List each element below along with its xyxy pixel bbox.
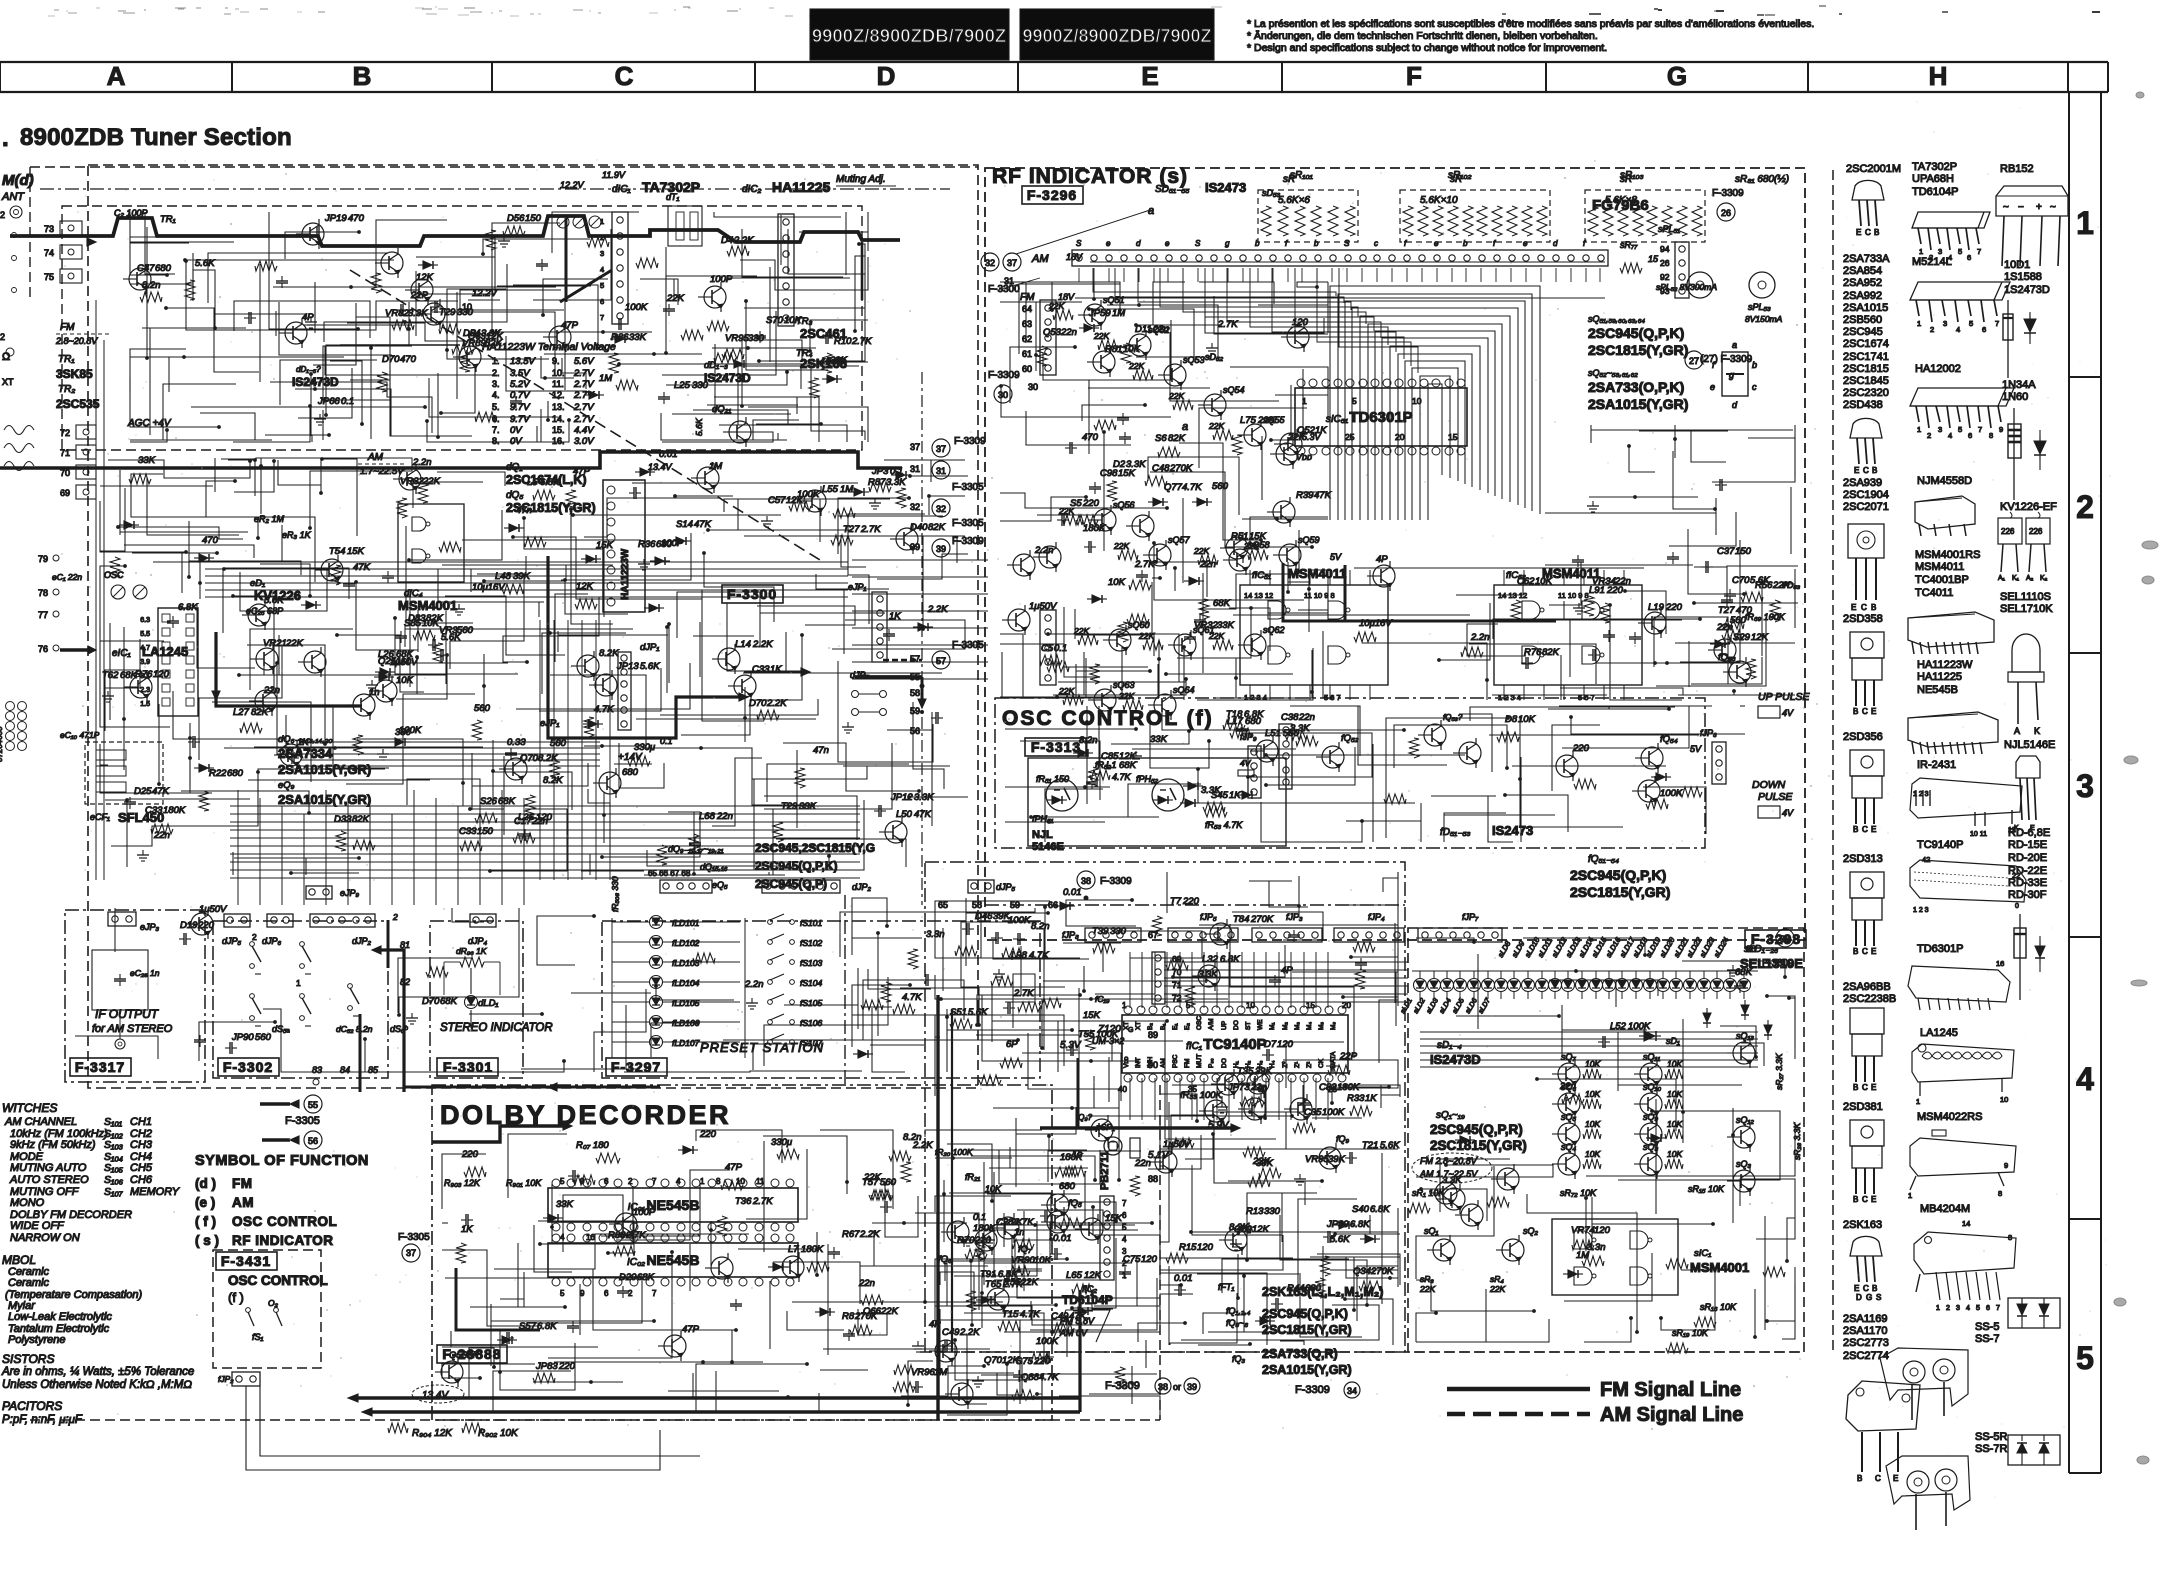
svg-text:560: 560 [474, 703, 491, 714]
svg-text:fQ₅₂: fQ₅₂ [1341, 733, 1359, 744]
svg-text:5.6K: 5.6K [640, 661, 660, 672]
svg-text:92: 92 [1660, 272, 1670, 282]
svg-text:PACITORS: PACITORS [2, 1399, 62, 1413]
svg-text:C: C [1862, 1083, 1868, 1092]
svg-text:eJP₃: eJP₃ [140, 922, 160, 932]
svg-text:7: 7 [1995, 319, 1999, 328]
svg-text:Muting Adj.: Muting Adj. [836, 174, 886, 185]
svg-text:6: 6 [1122, 1211, 1127, 1220]
svg-text:sQ₁₂: sQ₁₂ [1736, 1115, 1754, 1125]
svg-text:e: e [1710, 382, 1715, 392]
svg-text:D56: D56 [507, 213, 525, 224]
svg-text:5.5: 5.5 [140, 631, 150, 638]
svg-text:3SK85: 3SK85 [56, 367, 93, 381]
svg-text:5.6K: 5.6K [441, 632, 461, 643]
svg-text:100K: 100K [1096, 1029, 1119, 1040]
svg-text:sQ₄: sQ₄ [1561, 1142, 1577, 1152]
svg-text:RD-15E: RD-15E [2008, 839, 2047, 851]
svg-text:fIC₁: fIC₁ [1186, 1041, 1202, 1052]
svg-text:fQ₅₄: fQ₅₄ [1660, 734, 1678, 745]
svg-text:12K: 12K [786, 495, 804, 506]
svg-text:E: E [1871, 1083, 1876, 1092]
svg-text:2.7K: 2.7K [1217, 319, 1238, 330]
svg-text:K₂: K₂ [2040, 575, 2048, 582]
svg-text:2.7V: 2.7V [573, 402, 595, 413]
svg-text:eQ₉: eQ₉ [278, 780, 295, 791]
svg-text:12.2V: 12.2V [560, 180, 585, 190]
svg-text:E: E [1851, 603, 1856, 612]
svg-text:fJP₃: fJP₃ [1286, 912, 1303, 922]
svg-text:3.3n: 3.3n [926, 929, 945, 940]
svg-text:2: 2 [600, 233, 604, 242]
svg-text:fQ₅₁₋₅₄: fQ₅₁₋₅₄ [1588, 854, 1619, 865]
svg-text:22n: 22n [1060, 327, 1077, 338]
svg-text:dIC₁: dIC₁ [612, 184, 631, 195]
svg-text:eJP₁: eJP₁ [848, 582, 867, 592]
svg-text:sQ₁₀: sQ₁₀ [1643, 1082, 1661, 1092]
svg-text:fS102: fS102 [800, 938, 822, 948]
svg-text:F-3305: F-3305 [285, 1115, 320, 1127]
svg-text:4: 4 [600, 265, 604, 274]
svg-text:2.7K: 2.7K [1002, 1279, 1023, 1290]
svg-text:FM: FM [1020, 292, 1035, 303]
svg-text:NE545B: NE545B [1917, 684, 1958, 696]
svg-text:S26: S26 [480, 796, 498, 807]
svg-text:C28: C28 [996, 1217, 1014, 1228]
svg-text:33K: 33K [462, 1350, 480, 1361]
svg-text:B: B [353, 61, 372, 91]
svg-text:10K: 10K [422, 618, 440, 629]
svg-text:T29: T29 [781, 801, 798, 812]
svg-text:Q66: Q66 [863, 1306, 882, 1317]
svg-text:5V: 5V [1690, 744, 1702, 754]
svg-text:F-3305: F-3305 [952, 482, 984, 493]
svg-text:VR74: VR74 [1571, 1225, 1595, 1236]
svg-text:68K: 68K [498, 796, 516, 807]
svg-text:8: 8 [1989, 431, 1993, 440]
svg-text:47P: 47P [725, 1162, 743, 1173]
svg-text:dQ₅: dQ₅ [506, 490, 523, 501]
svg-text:2.2K: 2.2K [912, 1140, 933, 1151]
svg-text:RD-33E: RD-33E [2008, 877, 2047, 889]
svg-text:fLD104: fLD104 [672, 978, 700, 988]
svg-text:SEL1110S: SEL1110S [2000, 591, 2051, 603]
svg-text:B: B [1853, 825, 1858, 834]
svg-text:AM: AM [232, 1195, 254, 1210]
svg-text:1n: 1n [369, 687, 380, 698]
svg-text:FM: FM [60, 322, 75, 333]
svg-text:fS₁: fS₁ [252, 1332, 264, 1342]
svg-text:O₂: O₂ [268, 1298, 279, 1308]
svg-text:1n: 1n [1014, 1227, 1025, 1238]
svg-text:S85: S85 [404, 618, 422, 629]
svg-text:VR21: VR21 [263, 638, 287, 649]
svg-text:2SC945(Q,P,R): 2SC945(Q,P,R) [1430, 1122, 1523, 1137]
svg-text:F-3309: F-3309 [954, 436, 986, 447]
svg-text:E: E [1893, 1474, 1898, 1483]
svg-text:sPL₅₁: sPL₅₁ [1658, 224, 1680, 234]
svg-text:1K: 1K [770, 664, 782, 675]
svg-text:M₂: M₂ [1282, 1022, 1289, 1030]
svg-text:ST: ST [1245, 1022, 1252, 1030]
svg-text:S₁₀₅: S₁₀₅ [104, 1162, 124, 1174]
svg-text:a: a [1732, 340, 1737, 350]
svg-text:2SA1169: 2SA1169 [1843, 1313, 1887, 1325]
svg-text:38: 38 [1780, 934, 1790, 944]
svg-text:10μ16V: 10μ16V [472, 582, 506, 593]
svg-text:330: 330 [748, 333, 765, 344]
svg-text:fR₅₁ 150: fR₅₁ 150 [1036, 774, 1069, 784]
svg-text:D7: D7 [1264, 1039, 1277, 1050]
svg-text:MEMORY: MEMORY [130, 1186, 180, 1198]
svg-text:6.8K: 6.8K [178, 602, 198, 613]
svg-text:2SC2774: 2SC2774 [1843, 1350, 1889, 1362]
svg-text:33K: 33K [1217, 620, 1235, 631]
svg-text:6: 6 [1982, 325, 1986, 334]
svg-text:sR₄: sR₄ [1490, 1274, 1504, 1284]
svg-text:15K: 15K [1083, 1010, 1101, 1021]
svg-text:2SC535: 2SC535 [56, 397, 100, 411]
svg-text:3: 3 [2076, 768, 2094, 804]
svg-text:T36: T36 [735, 1196, 752, 1207]
svg-text:5: 5 [560, 1177, 565, 1186]
svg-text:b: b [1463, 239, 1468, 248]
svg-text:7: 7 [652, 1289, 657, 1298]
svg-text:S: S [1195, 239, 1201, 248]
svg-text:eC₁ 22n: eC₁ 22n [52, 572, 82, 582]
svg-text:2: 2 [628, 1177, 633, 1186]
svg-text:HA12002: HA12002 [1915, 363, 1961, 375]
svg-text:UP: UP [1221, 1021, 1228, 1030]
svg-text:KV1226-EF: KV1226-EF [2000, 501, 2057, 513]
svg-text:M₆: M₆ [1330, 1022, 1337, 1030]
svg-text:dQ₁₅,₁₆: dQ₁₅,₁₆ [700, 862, 728, 872]
svg-text:5.: 5. [492, 402, 500, 412]
svg-text:Q34: Q34 [1353, 1266, 1371, 1277]
svg-text:sD₁₋₄: sD₁₋₄ [1437, 1040, 1462, 1051]
svg-text:OSC CONTROL: OSC CONTROL [232, 1214, 337, 1229]
svg-text:1K: 1K [297, 737, 309, 748]
svg-text:STEREO INDICATOR: STEREO INDICATOR [440, 1022, 553, 1034]
svg-text:fS103: fS103 [800, 958, 822, 968]
svg-text:F-3309: F-3309 [1100, 876, 1132, 887]
svg-text:22n: 22n [1152, 324, 1169, 335]
svg-text:P:pF, n:nF, μ:μF: P:pF, n:nF, μ:μF [2, 1414, 83, 1426]
svg-text:R₀₇ 180: R₀₇ 180 [576, 1140, 609, 1151]
svg-text:fR₅₃ 4.7K: fR₅₃ 4.7K [1205, 820, 1243, 830]
svg-text:3: 3 [600, 249, 604, 258]
svg-text:2SC945: 2SC945 [1843, 326, 1883, 338]
svg-text:fQ₉: fQ₉ [1336, 1134, 1350, 1144]
svg-text:* La présention et les spécifi: * La présention et les spécifications so… [1247, 18, 1814, 30]
svg-text:8.2K: 8.2K [599, 648, 619, 659]
svg-text:1: 1 [1917, 319, 1921, 328]
svg-text:e: e [1523, 239, 1528, 248]
svg-text:L32: L32 [1202, 954, 1219, 965]
svg-text:sQ₁: sQ₁ [1424, 1226, 1439, 1236]
svg-text:TC4001BP: TC4001BP [1915, 574, 1969, 586]
svg-text:fQ₁,₂,₄: fQ₁,₂,₄ [1226, 1306, 1251, 1316]
svg-text:T15: T15 [1002, 1309, 1019, 1320]
svg-text:R81: R81 [1105, 344, 1122, 355]
svg-text:0.1: 0.1 [890, 466, 903, 477]
svg-text:3.: 3. [492, 379, 500, 389]
svg-text:16: 16 [1996, 959, 2004, 968]
svg-text:12K: 12K [576, 581, 594, 592]
svg-text:330: 330 [692, 380, 709, 391]
svg-text:RD-30F: RD-30F [2008, 889, 2047, 901]
svg-text:LA1245: LA1245 [1920, 1027, 1958, 1039]
svg-text:JP59: JP59 [1088, 308, 1111, 319]
svg-text:R67: R67 [842, 1229, 860, 1240]
svg-text:C: C [1863, 1284, 1869, 1293]
svg-text:39: 39 [936, 544, 946, 554]
svg-text:120: 120 [1141, 1254, 1158, 1265]
svg-text:fJP₈: fJP₈ [1062, 930, 1079, 940]
svg-text:D: D [877, 61, 896, 91]
svg-text:15: 15 [1648, 254, 1659, 264]
svg-text:JP90: JP90 [231, 1032, 254, 1043]
svg-text:470: 470 [1736, 605, 1753, 616]
svg-text:sQ₅: sQ₅ [1561, 1112, 1577, 1122]
svg-text:L51: L51 [1265, 728, 1281, 739]
svg-text:VR96: VR96 [911, 1367, 935, 1378]
svg-text:c: c [1752, 382, 1757, 392]
svg-text:PB2711: PB2711 [1099, 1151, 1111, 1190]
svg-text:XT: XT [1123, 1022, 1130, 1030]
svg-text:dR₉₆ 1K: dR₉₆ 1K [456, 946, 487, 956]
svg-text:(d ): (d ) [195, 1176, 216, 1191]
svg-text:9900Z/8900ZDB/7900Z: 9900Z/8900ZDB/7900Z [1022, 26, 1211, 46]
svg-text:A: A [107, 61, 126, 91]
svg-text:5.1V: 5.1V [1148, 1150, 1170, 1161]
svg-text:5.6K: 5.6K [195, 258, 215, 269]
svg-text:10K: 10K [1535, 576, 1553, 587]
svg-text:9: 9 [580, 1289, 585, 1298]
svg-text:2SC1904: 2SC1904 [1843, 489, 1889, 501]
svg-text:11.: 11. [552, 379, 564, 389]
svg-text:2SA1170: 2SA1170 [1843, 1325, 1887, 1337]
svg-text:L19: L19 [1648, 602, 1665, 613]
svg-text:sR₁₆ 10K: sR₁₆ 10K [1700, 1302, 1737, 1312]
svg-text:31: 31 [910, 464, 920, 474]
svg-text:Q70: Q70 [520, 753, 539, 764]
svg-text:1M: 1M [599, 373, 612, 384]
svg-text:30: 30 [998, 390, 1008, 400]
svg-text:9: 9 [1999, 425, 2003, 434]
svg-text:Z¹: Z¹ [1294, 1061, 1301, 1068]
svg-text:sR₂₈ 3.3K: sR₂₈ 3.3K [1792, 1123, 1802, 1160]
svg-text:B: B [1853, 1083, 1858, 1092]
svg-text:2SA1015(Y,GR): 2SA1015(Y,GR) [1262, 1363, 1352, 1377]
svg-text:4: 4 [1122, 1235, 1127, 1244]
svg-text:39K: 39K [1255, 1066, 1273, 1077]
svg-text:b: b [1255, 239, 1260, 248]
svg-text:6: 6 [1967, 253, 1971, 262]
svg-text:fR₃₃ 100K: fR₃₃ 100K [1180, 1090, 1223, 1101]
svg-text:5: 5 [1122, 1223, 1127, 1232]
svg-text:E: E [1856, 228, 1861, 237]
svg-text:T84: T84 [1233, 914, 1249, 925]
svg-text:5: 5 [1958, 425, 1962, 434]
svg-text:TD6104P: TD6104P [1912, 186, 1958, 198]
svg-text:L26: L26 [518, 812, 535, 823]
svg-text:14: 14 [1962, 1219, 1970, 1228]
svg-text:R10: R10 [834, 336, 852, 347]
svg-text:5: 5 [600, 281, 604, 290]
svg-text:S: S [1076, 239, 1082, 248]
svg-text:E: E [1871, 1195, 1876, 1204]
svg-text:fS104: fS104 [800, 978, 822, 988]
svg-text:88: 88 [1148, 1174, 1158, 1184]
svg-text:2SD356: 2SD356 [1843, 731, 1883, 743]
svg-text:VR95: VR95 [1305, 1154, 1329, 1165]
svg-text:R₉₀₂ 10K: R₉₀₂ 10K [478, 1428, 519, 1439]
svg-text:C57: C57 [768, 495, 786, 506]
svg-text:47P: 47P [682, 1324, 700, 1335]
svg-text:e: e [1165, 239, 1170, 248]
svg-text:220: 220 [461, 1149, 479, 1160]
svg-text:Unless Otherwise Noted K:kΩ ,M: Unless Otherwise Noted K:kΩ ,M:MΩ [2, 1379, 192, 1391]
svg-text:D8: D8 [1505, 714, 1518, 725]
svg-text:5.2V: 5.2V [510, 379, 531, 390]
svg-text:2.2n: 2.2n [1034, 545, 1054, 556]
svg-text:57: 57 [936, 656, 946, 666]
svg-text:A₂: A₂ [2026, 575, 2034, 582]
svg-text:2: 2 [1930, 325, 1934, 334]
svg-text:22n: 22n [716, 811, 733, 822]
svg-text:OSC: OSC [1196, 1016, 1203, 1030]
svg-text:2.2K: 2.2K [733, 235, 754, 246]
svg-text:90: 90 [1148, 1060, 1158, 1070]
svg-text:22K: 22K [1489, 1284, 1505, 1294]
svg-text:F-3317: F-3317 [75, 1059, 125, 1075]
svg-text:2SC2001M: 2SC2001M [1846, 163, 1901, 175]
svg-text:C47: C47 [137, 263, 155, 274]
svg-text:5.6K: 5.6K [1380, 1140, 1400, 1151]
svg-text:D19: D19 [180, 920, 198, 931]
svg-text:6.8K: 6.8K [1220, 954, 1240, 965]
svg-text:K₁: K₁ [2012, 575, 2020, 582]
svg-text:2.7K: 2.7K [851, 336, 872, 347]
svg-text:JP19: JP19 [324, 213, 347, 224]
svg-text:M₃: M₃ [1294, 1022, 1301, 1030]
svg-text:7: 7 [1122, 1199, 1127, 1208]
svg-text:dC₅₂ 8.2n: dC₅₂ 8.2n [336, 1024, 373, 1034]
svg-text:eJP₁: eJP₁ [540, 718, 559, 729]
svg-text:9.7V: 9.7V [510, 414, 531, 425]
svg-text:2SC1815: 2SC1815 [1843, 363, 1889, 375]
svg-text:2SC1741: 2SC1741 [1843, 351, 1889, 363]
svg-text:120: 120 [1197, 1242, 1214, 1253]
svg-text:8: 8 [1998, 1189, 2002, 1198]
svg-text:220: 220 [1572, 743, 1590, 754]
svg-text:220: 220 [1033, 1356, 1051, 1367]
svg-text:2: 2 [0, 332, 5, 342]
svg-text:sPL₅₃: sPL₅₃ [1748, 302, 1771, 312]
svg-text:100K: 100K [1628, 1021, 1651, 1032]
svg-text:11 10 9 8: 11 10 9 8 [1558, 591, 1589, 600]
svg-text:VR32: VR32 [1194, 620, 1218, 631]
svg-text:DOLBY DECORDER: DOLBY DECORDER [440, 1100, 731, 1130]
svg-text:Q63: Q63 [468, 331, 487, 342]
svg-text:6: 6 [1986, 1305, 1990, 1312]
svg-text:2SD358: 2SD358 [1843, 613, 1883, 625]
svg-text:C37: C37 [1717, 546, 1735, 557]
svg-text:10K: 10K [1585, 1119, 1600, 1129]
svg-text:22K: 22K [1208, 421, 1224, 431]
svg-text:M₁: M₁ [1269, 1022, 1276, 1030]
svg-text:C38: C38 [1281, 712, 1299, 723]
svg-text:226: 226 [2029, 527, 2043, 536]
svg-text:8.2K: 8.2K [538, 753, 558, 764]
svg-text:5 6 7: 5 6 7 [1578, 693, 1595, 702]
svg-text:120: 120 [153, 669, 170, 680]
svg-text:37: 37 [910, 442, 920, 452]
svg-text:e: e [1434, 239, 1439, 248]
svg-text:1K: 1K [1315, 425, 1327, 436]
svg-text:Low-Leak Electrolytic: Low-Leak Electrolytic [8, 1311, 112, 1323]
svg-text:B: B [1853, 1195, 1858, 1204]
svg-text:5.6K×10: 5.6K×10 [1420, 195, 1458, 206]
svg-text:4: 4 [1956, 325, 1960, 334]
svg-text:8.2n: 8.2n [1079, 735, 1098, 746]
svg-text:10K: 10K [1667, 1089, 1682, 1099]
svg-text:470: 470 [202, 535, 219, 546]
svg-text:E: E [1871, 707, 1876, 716]
svg-text:R22: R22 [209, 768, 227, 779]
svg-text:62: 62 [1022, 334, 1032, 344]
svg-text:D33: D33 [334, 814, 352, 825]
svg-text:1μ50V: 1μ50V [1163, 1139, 1192, 1150]
svg-text:1K: 1K [1229, 790, 1241, 801]
svg-text:NJL5146E: NJL5146E [2004, 739, 2055, 751]
svg-text:32: 32 [985, 258, 995, 268]
svg-text:2SC1815(Y,GR): 2SC1815(Y,GR) [1262, 1323, 1352, 1337]
svg-text:120: 120 [1594, 1225, 1611, 1236]
svg-text:P₆₀: P₆₀ [1208, 1058, 1215, 1068]
svg-text:C49: C49 [942, 1327, 960, 1338]
svg-text:82: 82 [400, 977, 410, 987]
svg-text:T35: T35 [1237, 1066, 1254, 1077]
svg-text:R8: R8 [842, 1311, 855, 1322]
svg-text:1: 1 [700, 1177, 705, 1186]
svg-text:S40: S40 [1352, 1204, 1370, 1215]
svg-text:22K: 22K [1118, 691, 1134, 701]
svg-text:AM: AM [1160, 1058, 1167, 1068]
svg-text:0V: 0V [510, 425, 523, 436]
svg-text:61: 61 [1022, 349, 1032, 359]
svg-text:JP73: JP73 [1227, 1082, 1250, 1093]
svg-text:sD₅₃: sD₅₃ [1262, 188, 1281, 198]
svg-text:G: G [1667, 61, 1687, 91]
svg-text:C: C [1863, 466, 1869, 475]
svg-text:MSM4001: MSM4001 [1690, 1260, 1749, 1275]
svg-text:* Design and specifications su: * Design and specifications subject to c… [1247, 42, 1607, 54]
svg-text:M₄: M₄ [1306, 1022, 1313, 1030]
svg-text:TD6301P: TD6301P [1349, 409, 1412, 426]
svg-text:6: 6 [600, 297, 604, 306]
svg-text:L65: L65 [1066, 1270, 1083, 1281]
svg-text:2.2K: 2.2K [752, 639, 773, 650]
svg-text:3.9: 3.9 [140, 659, 150, 666]
svg-text:R56: R56 [1755, 580, 1773, 591]
svg-text:5.6V: 5.6V [574, 356, 595, 367]
svg-text:5: 5 [1976, 1305, 1980, 1312]
svg-text:22n: 22n [858, 1278, 875, 1289]
svg-text:180K: 180K [1083, 523, 1106, 534]
svg-text:82K: 82K [352, 814, 370, 825]
